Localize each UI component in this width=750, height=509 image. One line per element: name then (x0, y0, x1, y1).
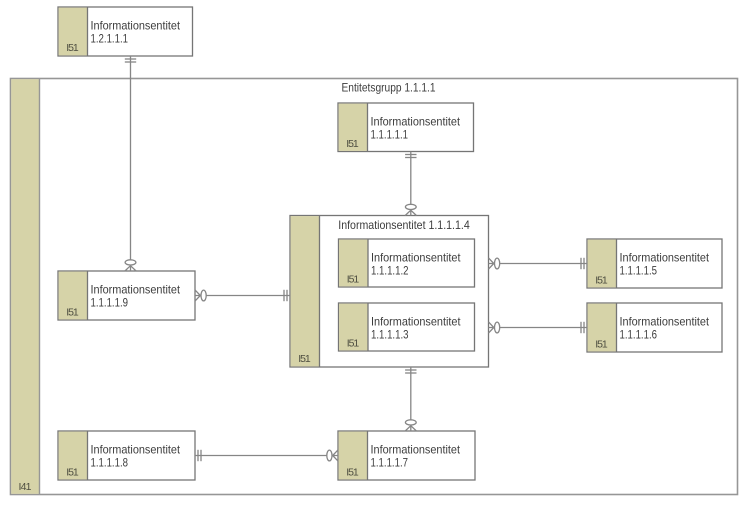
cardinality one (double bars) at box A end (125, 58, 136, 60)
svg-text:1.1.1.1.5: 1.1.1.1.5 (620, 264, 658, 278)
svg-text:Informationsentitet: Informationsentitet (91, 18, 181, 32)
svg-text:Informationsentitet: Informationsentitet (371, 250, 461, 264)
wire C6: box I right to box J left (195, 450, 338, 461)
entity group I41 Entitetsgrupp 1.1.1.1 (outer container) (11, 79, 738, 495)
svg-text:I41: I41 (19, 481, 32, 493)
svg-text:Informationsentitet: Informationsentitet (371, 442, 461, 456)
cardinality zero-or-many (circle + crow's foot) at box J end (327, 450, 332, 461)
svg-text:Informationsentitet: Informationsentitet (371, 114, 461, 128)
svg-text:1.1.1.1.3: 1.1.1.1.3 (371, 328, 409, 342)
svg-text:1.1.1.1.7: 1.1.1.1.7 (371, 456, 409, 470)
wire C4b: container C right to box G left (489, 322, 588, 333)
svg-text:Entitetsgrupp 1.1.1.1: Entitetsgrupp 1.1.1.1 (342, 81, 436, 95)
cardinality one (double bars) at container end (283, 290, 285, 301)
wire C1: box A bottom to box H top (125, 56, 136, 271)
entity I51 1.1.1.1.7 (box J, bottom middle) (338, 431, 475, 480)
cardinality one (double bars) at box I end (197, 450, 199, 461)
wire C3: box H right to container C left (195, 290, 290, 301)
cardinality one (double bars) at box F end (580, 258, 582, 269)
svg-text:1.1.1.1.6: 1.1.1.1.6 (620, 328, 658, 342)
cardinality zero-or-many (circle + crow's foot) at box H end (201, 290, 206, 301)
svg-text:I51: I51 (346, 466, 359, 478)
svg-text:I51: I51 (347, 273, 360, 285)
entity I51 1.1.1.1.3 (box E, inside container) (339, 303, 475, 351)
svg-text:1.1.1.1.9: 1.1.1.1.9 (91, 296, 129, 310)
entity I51 1.1.1.1.9 (box H, left middle) (58, 271, 195, 320)
cardinality zero-or-many (circle + crow's foot) at container end (405, 204, 416, 209)
svg-text:I51: I51 (66, 42, 79, 54)
entity container I51 Informationsentitet 1.1.1.1.4 (box C) (290, 216, 489, 368)
svg-text:Informationsentitet: Informationsentitet (371, 314, 461, 328)
cardinality zero-or-many (circle + crow's foot) at box J end (405, 420, 416, 425)
svg-text:I51: I51 (595, 274, 608, 286)
svg-text:I51: I51 (347, 337, 360, 349)
entity I51 1.1.1.1.8 (box I, bottom left) (58, 431, 195, 480)
cardinality zero-or-many (circle + crow's foot) at container end (495, 258, 500, 269)
svg-text:Informationsentitet 1.1.1.1.4: Informationsentitet 1.1.1.1.4 (338, 218, 470, 232)
entity I51 1.1.1.1.6 (box G, right bottom) (587, 303, 722, 352)
svg-text:I51: I51 (346, 138, 359, 150)
svg-text:I51: I51 (66, 466, 79, 478)
entity I51 1.1.1.1.2 (box D, inside container) (339, 239, 475, 287)
entity I51 1.1.1.1.5 (box F, right top) (587, 239, 722, 288)
wire C5: container C bottom to box J top (405, 367, 416, 431)
entity I51 1.1.1.1.1 (box B, top middle) (338, 103, 474, 152)
svg-text:Informationsentitet: Informationsentitet (91, 282, 181, 296)
svg-text:I51: I51 (298, 353, 311, 365)
svg-text:1.1.1.1.8: 1.1.1.1.8 (91, 456, 129, 470)
svg-text:I51: I51 (66, 306, 79, 318)
svg-text:I51: I51 (595, 338, 608, 350)
cardinality one (double bars) at box B end (405, 154, 416, 156)
svg-text:Informationsentitet: Informationsentitet (91, 442, 181, 456)
svg-text:1.2.1.1.1: 1.2.1.1.1 (91, 32, 129, 46)
svg-text:Informationsentitet: Informationsentitet (620, 314, 710, 328)
cardinality one (double bars) at box G end (580, 322, 582, 333)
entity I51 1.2.1.1.1 (box A, top-left) (58, 7, 193, 56)
wire C4a: container C right to box F left (489, 258, 588, 269)
svg-text:Informationsentitet: Informationsentitet (620, 250, 710, 264)
svg-text:1.1.1.1.2: 1.1.1.1.2 (371, 264, 409, 278)
cardinality zero-or-many (circle + crow's foot) at container end (495, 322, 500, 333)
cardinality one (double bars) at container end (405, 369, 416, 371)
cardinality zero-or-many (circle + crow's foot) at box H end (125, 260, 136, 265)
wire C2: box B bottom to container C top (405, 152, 416, 216)
svg-text:1.1.1.1.1: 1.1.1.1.1 (371, 128, 409, 142)
